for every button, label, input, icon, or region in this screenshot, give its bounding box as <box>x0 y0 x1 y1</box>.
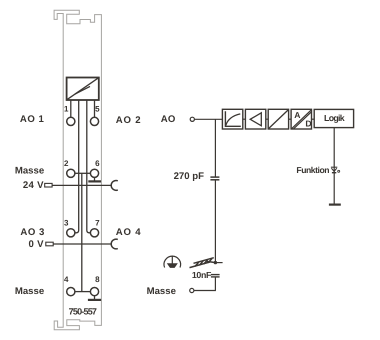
svg-text:8: 8 <box>95 275 100 284</box>
stub amplifier to isolation <box>266 118 268 120</box>
Funktion adjustment symbol <box>331 167 340 173</box>
capacitor 10nF plates <box>211 275 220 277</box>
terminal 7 circle <box>90 229 98 237</box>
wire box to terminal 5 <box>94 100 96 117</box>
masse bus wire rows 2-4 <box>81 173 83 291</box>
terminal 6 circle <box>90 169 98 177</box>
svg-text:Funktion: Funktion <box>296 165 329 175</box>
svg-text:Masse: Masse <box>15 166 44 177</box>
0V male connector square <box>46 242 53 246</box>
terminal 6 stub to jumper contact <box>94 177 96 180</box>
svg-text:24 V: 24 V <box>23 180 44 191</box>
svg-text:A: A <box>294 110 300 120</box>
wire AO terminal to filter box <box>195 118 223 120</box>
bus wire box to terminal 7 <box>87 100 91 233</box>
bus wire box to terminal 3 <box>75 100 79 233</box>
svg-text:AO 4: AO 4 <box>116 227 142 238</box>
A/D converter box U4 <box>291 109 312 129</box>
terminal 8 circle <box>90 288 98 296</box>
power jumper contact bar terminal 8 <box>88 299 101 301</box>
svg-text:AO: AO <box>161 114 176 125</box>
svg-text:Logik: Logik <box>324 113 345 123</box>
junction stub right <box>215 262 222 264</box>
display box second diagonal <box>75 86 90 94</box>
24V rail wire <box>52 184 112 186</box>
terminal 1 circle <box>67 117 75 125</box>
svg-text:6: 6 <box>95 159 100 168</box>
isolation box U3 <box>268 109 288 129</box>
svg-text:270 pF: 270 pF <box>174 171 205 182</box>
terminal 5 circle <box>90 117 98 125</box>
junction dot <box>214 261 217 264</box>
terminal 2 circle <box>67 169 75 177</box>
svg-text:AO 1: AO 1 <box>20 114 45 125</box>
Logik box U5 <box>314 109 353 127</box>
amplifier box U2 <box>245 109 265 129</box>
wire Logik to ground bar <box>333 128 335 204</box>
svg-text:2: 2 <box>64 159 69 168</box>
module 750-557 housing outline <box>54 10 101 330</box>
filter box U1 <box>222 109 242 129</box>
svg-text:750-557: 750-557 <box>69 307 97 317</box>
wire 10nF to corner <box>214 277 216 291</box>
svg-text:AO 2: AO 2 <box>116 115 142 126</box>
terminal 4 circle <box>67 288 75 296</box>
wire 270pF to junction <box>214 180 216 263</box>
svg-text:0 V: 0 V <box>28 239 44 250</box>
display/status box with diagonal <box>67 78 99 101</box>
svg-text:D: D <box>305 119 311 129</box>
schematic Masse terminal circle <box>190 288 194 292</box>
0V rail wire <box>53 243 112 245</box>
wire terminal 2 to terminal 6 <box>75 172 91 174</box>
stub isolation to A/D <box>289 118 292 120</box>
svg-text:4: 4 <box>64 275 69 284</box>
vertical wire to 270pF <box>214 119 216 177</box>
svg-text:AO 3: AO 3 <box>20 227 44 238</box>
svg-text:Masse: Masse <box>15 286 44 297</box>
stub A/D to Logik <box>312 118 315 120</box>
capacitor 270pF plates <box>210 177 219 180</box>
terminal 3 circle <box>67 229 75 237</box>
wire terminal 4 to terminal 8 <box>75 291 91 293</box>
power jumper contact bar terminal 6 <box>88 180 101 182</box>
svg-text:Masse: Masse <box>147 286 176 297</box>
wire corner to Masse terminal <box>194 290 216 292</box>
svg-text:3: 3 <box>64 218 69 227</box>
functional earth symbol <box>164 256 181 268</box>
svg-text:10nF: 10nF <box>192 270 212 280</box>
wire box to terminal 1 <box>70 100 72 117</box>
terminal 8 stub to jumper contact <box>94 296 96 299</box>
svg-text:1: 1 <box>64 105 69 114</box>
ground bar under Logik <box>329 204 341 206</box>
chassis shield symbol <box>190 258 215 268</box>
svg-text:5: 5 <box>95 105 100 114</box>
24V male connector square <box>45 183 52 187</box>
24V female contact arc <box>111 181 118 191</box>
stub filter to amplifier <box>243 118 246 120</box>
svg-text:7: 7 <box>95 218 100 227</box>
display box main diagonal <box>67 78 99 100</box>
0V female contact arc <box>111 239 118 249</box>
schematic AO terminal circle <box>190 117 194 121</box>
